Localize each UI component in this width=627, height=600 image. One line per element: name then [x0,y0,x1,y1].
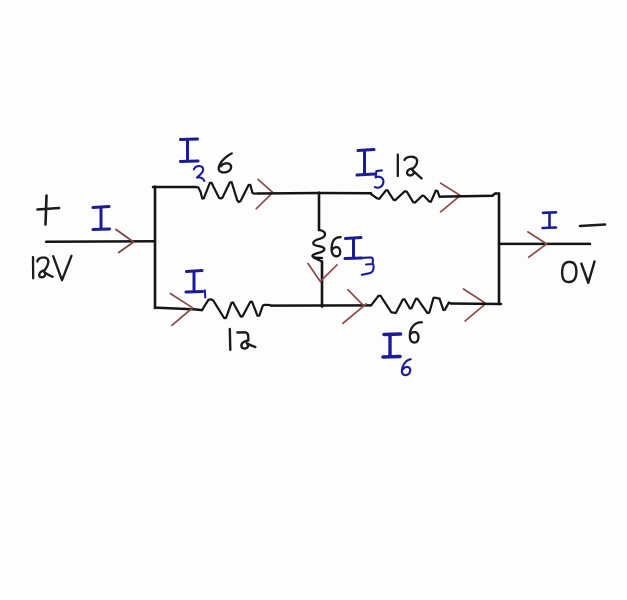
label 12 value of R1 [230,329,256,350]
wire top middle segment [258,192,372,195]
arrow current I output [528,232,547,257]
label subscript 2 of I2 [194,166,205,181]
arrow current I1 [170,294,192,326]
label I output current (blue, small) [543,212,556,228]
wire top-right to corner [442,194,499,197]
wire top-left to R2 [153,186,196,189]
arrow current I3 downward [308,264,337,282]
label 12V source voltage [33,256,72,280]
wire output to 0V [499,243,590,246]
resistor R6 6 ohm bottom-right zigzag [371,296,452,313]
resistor R5 12 ohm top-right zigzag [370,190,442,202]
wire left vertical branch [154,187,157,309]
resistor R3 6 ohm middle vertical squiggle [312,230,325,262]
label 6 value of R2 [219,153,232,172]
resistor R2 6 ohm top-left zigzag [196,182,258,202]
label I3 (blue) [345,238,362,259]
label I2 (blue) [181,139,199,162]
label I1 (blue) [186,271,203,293]
wire middle vertical upper [318,193,321,231]
label subscript 3 of I3 [361,257,374,274]
wire input from source [46,240,155,243]
label subscript 6 of I6 [402,359,411,375]
node plus terminal of source [38,196,60,225]
label 6 value of R3 [332,237,341,256]
wire bottom-left segment [155,308,202,311]
arrow current after R6 [464,289,486,321]
node minus terminal sign [580,225,605,227]
wire right vertical branch [498,194,501,305]
label 6 value of R6 [410,322,422,342]
label subscript 1 of I1 [204,290,207,297]
resistor R1 12 ohm bottom-left zigzag [202,299,271,318]
arrow current I5 [441,183,461,212]
arrow current I6 before R6 [343,290,366,324]
wire middle vertical lower [321,262,324,307]
label I6 (blue) [383,334,401,357]
arrow current I [116,230,134,253]
label 0V terminal voltage [562,262,594,283]
arrow current I2 [256,179,273,208]
wire bottom-right to corner [451,302,501,305]
wire bottom middle segment [271,304,371,307]
label I5 (blue) [357,150,375,176]
label subscript 5 of I5 [375,170,384,187]
label 12 value of R5 [398,155,422,179]
label I main current (blue) [93,207,110,230]
